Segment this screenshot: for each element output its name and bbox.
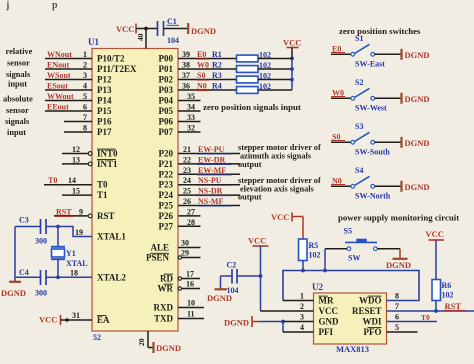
svg-text:sensor: sensor xyxy=(6,106,29,115)
svg-text:VCC: VCC xyxy=(271,212,289,222)
svg-text:DGND: DGND xyxy=(156,343,181,353)
svg-text:102: 102 xyxy=(309,251,321,260)
svg-text:VCC: VCC xyxy=(283,38,301,48)
svg-text:XTAL2: XTAL2 xyxy=(97,272,126,282)
svg-text:P20: P20 xyxy=(159,149,174,159)
svg-text:NS-MF: NS-MF xyxy=(198,197,223,206)
svg-text:S2: S2 xyxy=(355,78,363,87)
svg-text:P03: P03 xyxy=(159,85,174,95)
svg-text:VCC: VCC xyxy=(39,315,57,325)
svg-text:output: output xyxy=(238,160,262,169)
svg-text:R1: R1 xyxy=(212,50,222,59)
svg-text:32: 32 xyxy=(187,124,195,133)
svg-text:19: 19 xyxy=(75,228,83,237)
svg-text:RST: RST xyxy=(97,211,115,221)
svg-text:PSEN: PSEN xyxy=(146,253,170,263)
svg-text:input: input xyxy=(8,80,27,89)
svg-text:WNout: WNout xyxy=(47,50,72,59)
svg-text:14: 14 xyxy=(68,176,76,185)
svg-text:ENout: ENout xyxy=(47,61,70,70)
svg-text:P23: P23 xyxy=(159,180,174,190)
svg-text:NS-DR: NS-DR xyxy=(198,187,223,196)
svg-text:28: 28 xyxy=(187,218,195,227)
svg-text:6: 6 xyxy=(395,313,399,322)
svg-text:W0: W0 xyxy=(197,61,209,70)
svg-text:XTAL: XTAL xyxy=(66,259,88,268)
svg-text:P06: P06 xyxy=(159,117,174,127)
svg-text:RXD: RXD xyxy=(154,303,174,313)
svg-text:RST: RST xyxy=(445,301,462,311)
svg-text:30: 30 xyxy=(181,239,189,248)
svg-text:P14: P14 xyxy=(97,96,112,106)
svg-text:1: 1 xyxy=(300,292,304,301)
svg-text:P15: P15 xyxy=(97,106,112,116)
svg-text:P11/T2EX: P11/T2EX xyxy=(97,64,137,74)
svg-text:MR: MR xyxy=(319,296,334,306)
svg-text:relative: relative xyxy=(6,47,33,56)
svg-text:104: 104 xyxy=(167,36,179,45)
svg-text:21: 21 xyxy=(183,145,191,154)
svg-text:C2: C2 xyxy=(227,261,237,270)
svg-text:U1: U1 xyxy=(88,37,99,47)
svg-text:P22: P22 xyxy=(159,169,174,179)
svg-text:TXD: TXD xyxy=(154,314,174,324)
svg-text:31: 31 xyxy=(72,311,80,320)
svg-text:R3: R3 xyxy=(212,71,222,80)
svg-text:ALE: ALE xyxy=(150,243,169,253)
svg-text:EW-DR: EW-DR xyxy=(198,155,225,164)
svg-text:DGND: DGND xyxy=(405,138,430,148)
svg-text:XTAL1: XTAL1 xyxy=(97,232,126,242)
svg-text:33: 33 xyxy=(187,113,195,122)
svg-text:power supply monitoring circui: power supply monitoring circuit xyxy=(338,213,459,223)
svg-text:P05: P05 xyxy=(159,106,174,116)
svg-text:27: 27 xyxy=(187,207,195,216)
svg-text:C1: C1 xyxy=(167,17,177,26)
svg-text:T0: T0 xyxy=(421,313,430,322)
svg-text:MAX813: MAX813 xyxy=(336,344,369,354)
svg-text:35: 35 xyxy=(187,92,195,101)
svg-text:PFI: PFI xyxy=(319,327,334,337)
svg-text:38: 38 xyxy=(182,61,190,70)
svg-text:VCC: VCC xyxy=(116,24,134,34)
svg-text:102: 102 xyxy=(442,291,454,300)
svg-text:p: p xyxy=(52,0,58,11)
svg-text:input: input xyxy=(7,128,26,137)
svg-text:signals: signals xyxy=(6,70,31,79)
svg-text:26: 26 xyxy=(183,197,191,206)
svg-text:DGND: DGND xyxy=(224,318,249,328)
svg-text:22: 22 xyxy=(183,155,191,164)
svg-text:DGND: DGND xyxy=(405,50,430,60)
svg-text:R6: R6 xyxy=(442,281,452,290)
svg-text:12: 12 xyxy=(72,145,80,154)
svg-text:S3: S3 xyxy=(355,122,363,131)
svg-text:18: 18 xyxy=(70,269,78,278)
svg-text:SW-West: SW-West xyxy=(355,103,387,112)
svg-text:T0: T0 xyxy=(97,180,108,190)
svg-text:34: 34 xyxy=(187,103,195,112)
svg-text:Y1: Y1 xyxy=(66,249,76,258)
svg-text:R5: R5 xyxy=(309,241,319,250)
svg-text:11: 11 xyxy=(187,310,195,319)
svg-text:W0: W0 xyxy=(332,88,344,97)
svg-text:S5: S5 xyxy=(344,227,352,236)
svg-text:DGND: DGND xyxy=(405,94,430,104)
svg-text:EA: EA xyxy=(97,315,110,325)
svg-text:RD: RD xyxy=(160,274,173,284)
svg-text:T1: T1 xyxy=(97,190,108,200)
svg-text:5: 5 xyxy=(83,92,87,101)
svg-text:output: output xyxy=(238,193,262,202)
svg-text:300: 300 xyxy=(35,289,47,298)
svg-text:P17: P17 xyxy=(97,127,112,137)
svg-text:S0: S0 xyxy=(332,132,340,141)
svg-text:2: 2 xyxy=(300,302,304,311)
svg-text:DGND: DGND xyxy=(405,182,430,192)
svg-text:WDI: WDI xyxy=(362,317,381,327)
svg-text:INT1: INT1 xyxy=(97,159,118,169)
svg-text:15: 15 xyxy=(72,187,80,196)
svg-text:39: 39 xyxy=(182,50,190,59)
svg-text:6: 6 xyxy=(83,103,87,112)
svg-text:17: 17 xyxy=(186,270,194,279)
svg-text:SW-South: SW-South xyxy=(355,147,390,156)
svg-text:13: 13 xyxy=(72,155,80,164)
svg-text:zero position signals input: zero position signals input xyxy=(203,102,301,112)
svg-text:3: 3 xyxy=(83,71,87,80)
svg-text:8: 8 xyxy=(395,292,399,301)
svg-text:S1: S1 xyxy=(355,34,363,43)
svg-text:25: 25 xyxy=(183,187,191,196)
svg-text:24: 24 xyxy=(183,176,191,185)
svg-text:VCC: VCC xyxy=(426,229,444,239)
svg-text:P10/T2: P10/T2 xyxy=(97,54,125,64)
svg-text:PFO: PFO xyxy=(364,327,382,337)
svg-text:SW-East: SW-East xyxy=(355,59,385,68)
svg-text:1: 1 xyxy=(83,50,87,59)
svg-text:16: 16 xyxy=(186,280,194,289)
svg-text:7: 7 xyxy=(83,113,87,122)
svg-text:40: 40 xyxy=(136,33,145,41)
svg-text:5: 5 xyxy=(395,323,399,332)
svg-text:ESout: ESout xyxy=(47,82,68,91)
svg-text:P04: P04 xyxy=(159,96,174,106)
svg-text:37: 37 xyxy=(182,71,190,80)
svg-text:4: 4 xyxy=(83,82,87,91)
svg-text:10: 10 xyxy=(187,299,195,308)
svg-text:VCC: VCC xyxy=(319,306,339,316)
svg-text:9: 9 xyxy=(79,207,83,216)
svg-text:RESET: RESET xyxy=(352,306,382,316)
svg-text:P00: P00 xyxy=(159,54,174,64)
svg-text:T0: T0 xyxy=(48,176,57,185)
svg-text:N0: N0 xyxy=(197,82,207,91)
svg-text:signals: signals xyxy=(5,117,30,126)
svg-text:36: 36 xyxy=(182,82,190,91)
svg-text:52: 52 xyxy=(93,333,101,342)
svg-text:P27: P27 xyxy=(159,221,174,231)
svg-text:WSout: WSout xyxy=(47,71,71,80)
svg-text:2: 2 xyxy=(83,61,87,70)
svg-text:23: 23 xyxy=(183,166,191,175)
svg-text:DGND: DGND xyxy=(191,26,216,36)
svg-text:P16: P16 xyxy=(97,117,112,127)
svg-text:zero position switches: zero position switches xyxy=(339,26,421,36)
svg-text:j: j xyxy=(5,0,9,11)
svg-text:NS-PU: NS-PU xyxy=(198,176,222,185)
svg-text:S4: S4 xyxy=(355,166,363,175)
svg-text:RST: RST xyxy=(56,207,72,216)
svg-text:sensor: sensor xyxy=(7,59,30,68)
svg-text:GND: GND xyxy=(319,317,340,327)
svg-text:P25: P25 xyxy=(159,201,174,211)
svg-text:P07: P07 xyxy=(159,127,174,137)
svg-text:300: 300 xyxy=(35,237,47,246)
svg-text:WDO: WDO xyxy=(359,296,382,306)
svg-text:WWout: WWout xyxy=(47,92,74,101)
svg-text:VCC: VCC xyxy=(248,236,266,246)
svg-text:R4: R4 xyxy=(212,82,222,91)
svg-text:U2: U2 xyxy=(312,282,323,292)
svg-text:P13: P13 xyxy=(97,85,112,95)
svg-text:P24: P24 xyxy=(159,190,174,200)
svg-text:P02: P02 xyxy=(159,75,174,85)
svg-text:29: 29 xyxy=(181,249,189,258)
svg-text:P21: P21 xyxy=(159,159,174,169)
svg-text:WR: WR xyxy=(158,284,174,294)
svg-text:DGND: DGND xyxy=(386,260,411,270)
svg-text:P26: P26 xyxy=(159,211,174,221)
svg-text:N0: N0 xyxy=(332,176,342,185)
svg-text:EEout: EEout xyxy=(47,103,69,112)
svg-text:8: 8 xyxy=(83,124,87,133)
svg-text:P01: P01 xyxy=(159,64,174,74)
svg-text:SW: SW xyxy=(348,254,360,263)
svg-text:absolute: absolute xyxy=(3,95,33,104)
svg-text:E0: E0 xyxy=(197,50,206,59)
svg-text:C4: C4 xyxy=(19,268,29,277)
svg-text:INT0: INT0 xyxy=(97,149,118,159)
svg-text:3: 3 xyxy=(300,313,304,322)
svg-text:R2: R2 xyxy=(212,61,222,70)
svg-text:C3: C3 xyxy=(19,216,29,225)
svg-text:SW-North: SW-North xyxy=(355,191,391,200)
svg-text:20: 20 xyxy=(137,338,146,346)
svg-text:4: 4 xyxy=(300,323,304,332)
svg-text:P12: P12 xyxy=(97,75,112,85)
svg-text:104: 104 xyxy=(227,286,239,295)
svg-text:S0: S0 xyxy=(197,71,205,80)
svg-text:7: 7 xyxy=(395,302,399,311)
svg-text:EW-PU: EW-PU xyxy=(198,145,225,154)
svg-text:E0: E0 xyxy=(332,44,341,53)
svg-text:DGND: DGND xyxy=(1,288,26,298)
svg-text:EW-MF: EW-MF xyxy=(198,166,226,175)
